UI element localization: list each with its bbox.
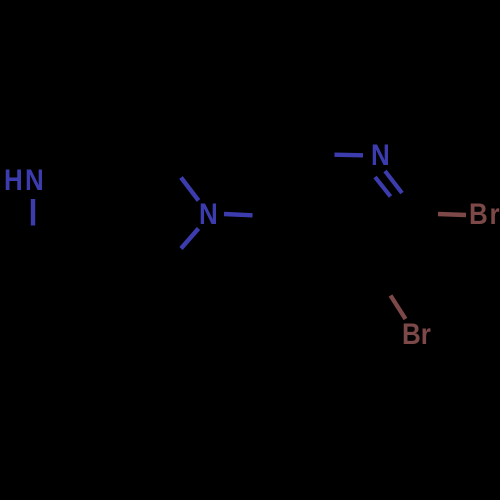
bond C2-Br (red half) [438,214,466,215]
atom label HN [4,166,46,196]
double bond N=C2 inner line [375,177,391,197]
bond N-C5 (blue half) [224,214,253,215]
bond C6-N pyridine (blue half) [335,152,364,157]
atom label N (amine) [199,200,218,230]
double bond N=C2 outer line [385,171,402,193]
bond HN-CH2 (blue half) [31,199,35,226]
bond CH2-N lower (blue half) [181,229,199,249]
atom label Br (right) [469,200,500,230]
bond C3-Br (red half) [391,296,406,320]
atom label Br (bottom) [402,320,431,350]
bond CH2-N upper (blue half) [181,178,199,201]
atom label N (pyridine) [371,141,390,171]
